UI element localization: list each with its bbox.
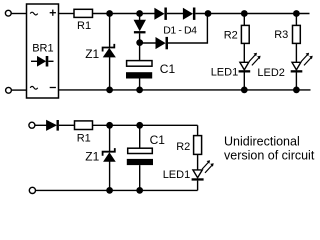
svg-text:C1: C1	[150, 133, 166, 147]
bridge rectifier BR1 box	[27, 4, 59, 98]
svg-text:D1 - D4: D1 - D4	[163, 25, 197, 37]
wire R2 branch top	[243, 14, 245, 26]
wire top rail right section	[195, 13, 309, 15]
svg-text:Unidirectional: Unidirectional	[224, 135, 300, 149]
wire	[59, 124, 75, 126]
wire	[139, 33, 141, 42]
wire Z1 branch lower	[109, 57, 111, 90]
junction node top of Z1	[106, 10, 113, 17]
junction bottom of Z1	[106, 87, 113, 94]
wire C1 lower branch	[139, 125, 141, 149]
junction bottom of LED1	[241, 87, 248, 94]
terminal bottom-left input	[6, 87, 12, 93]
wire	[11, 89, 26, 91]
terminal lower circuit top input	[29, 122, 35, 128]
label - bottom	[50, 87, 56, 89]
wire R2 to LED1 lower	[197, 154, 199, 170]
wire bottom rail (top circuit)	[59, 89, 311, 91]
junction bottom of C1	[136, 87, 143, 94]
wire	[167, 13, 184, 15]
wire lower top rail	[93, 124, 198, 126]
diode inside BR1	[31, 56, 54, 67]
wire C1 to bottom rail	[139, 79, 141, 90]
svg-text:R3: R3	[274, 29, 288, 41]
junction node B	[136, 39, 143, 46]
svg-text:version of circuit: version of circuit	[224, 149, 315, 163]
LED1 arrows	[249, 53, 261, 66]
resistor R2 (lower circuit)	[194, 136, 202, 155]
junction node A top of D3	[136, 10, 143, 17]
diode D1	[155, 8, 167, 20]
wire LED2 to bottom rail	[295, 73, 297, 90]
diode D4	[156, 37, 168, 49]
wire	[109, 161, 111, 190]
label ~ top	[30, 12, 38, 15]
svg-text:LED1: LED1	[211, 67, 239, 79]
resistor R3	[293, 25, 301, 43]
zener diode Z1 (lower circuit)	[103, 148, 115, 161]
svg-text:R1: R1	[77, 133, 91, 145]
junction node top of R3	[293, 10, 300, 17]
wire R3 branch top	[295, 14, 297, 26]
svg-text:R1: R1	[77, 20, 91, 32]
terminal top-left input	[5, 10, 11, 16]
LED1 (lower circuit)	[192, 170, 204, 181]
wire lower rail corner to R2	[197, 125, 199, 135]
LED1 lower arrows	[202, 160, 214, 173]
wire bottom rail (lower circuit)	[35, 189, 197, 191]
junction bottom of LED2	[293, 87, 300, 94]
resistor R1 (top circuit)	[74, 9, 93, 17]
wire node B down to C1	[139, 43, 141, 61]
svg-text:R2: R2	[224, 29, 238, 41]
wire Z1 branch upper	[109, 14, 111, 48]
label ~ bottom	[30, 86, 38, 89]
junction node C return of D4	[205, 10, 212, 17]
junction bottom of Z1 lower	[106, 187, 113, 194]
svg-text:BR1: BR1	[32, 42, 53, 54]
LED2 arrows	[301, 53, 313, 66]
svg-text:C1: C1	[160, 62, 176, 76]
wire R2 to LED1	[243, 43, 245, 62]
junction top of Z1 lower	[106, 122, 113, 129]
wire node B to D4	[140, 42, 156, 44]
junction bottom of C1 lower	[136, 187, 143, 194]
wire D3 branch	[139, 14, 141, 21]
wire LED1 to lower bottom rail	[197, 181, 199, 191]
wire	[35, 124, 47, 126]
svg-text:LED1: LED1	[163, 169, 191, 181]
wire	[139, 165, 141, 190]
capacitor C1 (lower circuit)	[127, 148, 153, 165]
LED1 (top circuit)	[239, 62, 251, 72]
wire Z1 lower branch	[109, 125, 111, 151]
wire top rail BR1 to R1	[59, 13, 75, 15]
junction node top of R2	[241, 10, 248, 17]
resistor R1 (lower circuit)	[75, 121, 93, 130]
LED2	[291, 62, 303, 72]
wire LED1 to bottom rail	[243, 73, 245, 90]
wire	[11, 13, 26, 15]
svg-text:Z1: Z1	[85, 47, 99, 61]
zener diode Z1 (top circuit)	[103, 44, 115, 57]
wire R3 to LED2	[295, 43, 297, 62]
svg-text:LED2: LED2	[257, 67, 285, 79]
svg-text:Z1: Z1	[85, 149, 99, 163]
diode D2	[183, 8, 195, 20]
terminal lower circuit bottom input	[29, 187, 35, 193]
junction top of C1 lower	[136, 122, 143, 129]
svg-text:R2: R2	[176, 141, 190, 153]
label +	[50, 10, 56, 16]
wire top rail R1 to D1	[93, 13, 155, 15]
diode D3 (vertical)	[134, 20, 146, 33]
capacitor C1 (top circuit)	[126, 61, 152, 79]
wire D4 to node C	[168, 14, 207, 44]
input diode (lower circuit)	[47, 120, 59, 131]
resistor R2 (top circuit)	[241, 25, 249, 43]
